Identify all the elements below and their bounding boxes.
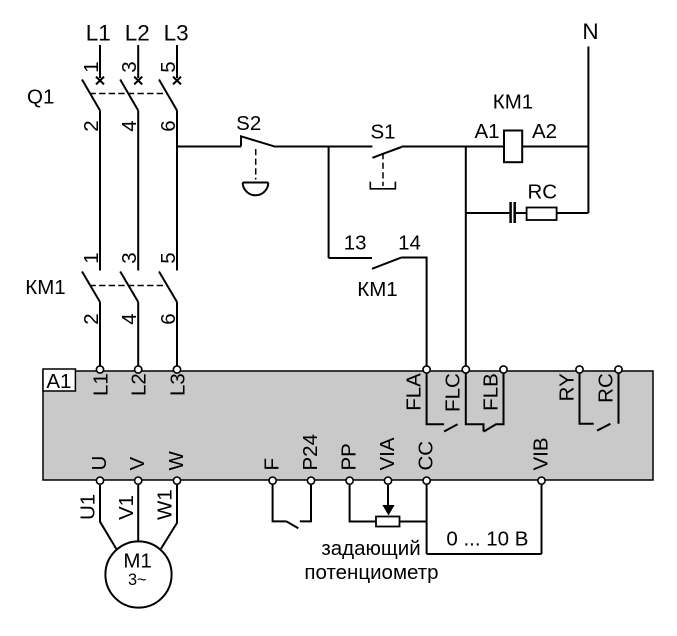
S2 actuator dashed link xyxy=(255,149,257,180)
svg-text:1: 1 xyxy=(80,61,103,72)
wire coil junction to coil A1 xyxy=(466,146,504,148)
terminal V xyxy=(126,457,149,485)
svg-text:RY: RY xyxy=(555,373,578,401)
wire KM1 pole3 to drive L3 xyxy=(176,302,178,370)
link P24 side xyxy=(300,485,311,521)
terminal VIB xyxy=(529,437,552,484)
svg-text:M1: M1 xyxy=(123,550,151,573)
wire Q1 to KM1 phase 3 xyxy=(176,111,178,271)
terminal FLB xyxy=(479,366,507,411)
wire L1 drop xyxy=(99,45,101,78)
wire CC down xyxy=(426,485,428,554)
wire capacitor to resistor xyxy=(516,212,527,214)
svg-text:W1: W1 xyxy=(154,489,177,520)
wire L2 drop xyxy=(137,45,139,78)
relay contact FLC common xyxy=(466,373,484,432)
S2 mushroom head xyxy=(243,183,269,196)
svg-text:3~: 3~ xyxy=(128,571,147,589)
svg-text:V1: V1 xyxy=(115,495,138,520)
svg-text:RC: RC xyxy=(527,181,557,204)
wire V to motor xyxy=(137,485,139,542)
Q1 pole 1 contact xyxy=(82,77,104,111)
svg-text:FLA: FLA xyxy=(403,373,426,411)
svg-text:3: 3 xyxy=(118,252,141,263)
svg-text:1: 1 xyxy=(80,252,103,263)
svg-text:14: 14 xyxy=(398,232,421,255)
wire U to motor xyxy=(100,485,117,550)
terminal RY xyxy=(555,366,583,401)
terminal F xyxy=(260,458,283,484)
svg-text:RC: RC xyxy=(594,373,617,403)
svg-text:потенциометр: потенциометр xyxy=(304,561,438,584)
svg-text:PP: PP xyxy=(337,443,360,470)
link F side xyxy=(273,485,287,521)
S1 actuator bracket xyxy=(370,182,395,189)
wire KM1 pole2 to drive L2 xyxy=(137,302,139,370)
svg-text:3: 3 xyxy=(118,61,141,72)
terminal VIA xyxy=(376,437,399,484)
capacitor of RC snubber xyxy=(511,202,515,223)
wiper arrow xyxy=(382,505,394,516)
KM1 pole 1 contact xyxy=(82,272,100,303)
svg-text:S1: S1 xyxy=(370,121,395,144)
potentiometer body xyxy=(376,517,400,527)
svg-text:L3: L3 xyxy=(167,373,190,396)
pushbutton S1 NO contact xyxy=(372,147,401,158)
relay contact FLA-FLC xyxy=(427,373,458,432)
wire W to motor xyxy=(161,485,177,549)
wire KM1 pole1 to drive L1 xyxy=(99,302,101,370)
svg-text:U1: U1 xyxy=(77,494,100,520)
terminal FLA xyxy=(403,366,431,411)
wire resistor to N xyxy=(557,212,589,214)
Q1 linkage dashed xyxy=(90,93,168,95)
terminal L1 xyxy=(90,366,113,396)
svg-text:VIB: VIB xyxy=(529,437,552,470)
terminal W xyxy=(165,451,188,485)
svg-text:V: V xyxy=(126,457,149,471)
terminal L3 xyxy=(167,366,190,396)
terminal U xyxy=(88,456,111,485)
svg-text:КМ1: КМ1 xyxy=(493,90,533,113)
terminal FLC xyxy=(441,366,469,412)
wire junction down to RC branch and FLC xyxy=(465,147,467,370)
svg-text:U: U xyxy=(88,456,111,471)
link F-P24 blade xyxy=(286,521,298,528)
wire L3 drop xyxy=(176,45,178,78)
terminal CC xyxy=(414,441,437,485)
resistor of RC snubber xyxy=(527,208,557,221)
wire S2 to junction xyxy=(276,146,329,148)
S1 actuator dashed link xyxy=(382,153,384,186)
motor M1 xyxy=(105,541,171,607)
svg-text:КМ1: КМ1 xyxy=(357,278,397,301)
wire control tap L3 to S2 xyxy=(177,146,241,148)
svg-text:L2: L2 xyxy=(125,20,150,45)
KM1 pole 2 contact xyxy=(120,272,138,303)
svg-text:задающий: задающий xyxy=(321,537,420,560)
svg-text:S2: S2 xyxy=(236,112,261,135)
KM1 pole 3 contact xyxy=(159,272,177,303)
wire junction to S1 xyxy=(329,146,373,148)
wire S1 to coil junction xyxy=(402,146,466,148)
svg-text:5: 5 xyxy=(157,61,180,72)
wire coil A2 to N xyxy=(522,146,588,148)
svg-text:Q1: Q1 xyxy=(27,86,54,109)
svg-text:0 ... 10 В: 0 ... 10 В xyxy=(446,528,528,551)
source 0-10V bottom xyxy=(427,553,542,555)
svg-text:5: 5 xyxy=(157,252,180,263)
svg-text:A1: A1 xyxy=(46,370,71,393)
wire junction down to aux contact xyxy=(328,147,330,259)
auxiliary contact KM1 13-14 xyxy=(372,258,401,269)
svg-text:CC: CC xyxy=(414,441,437,471)
wire to aux contact 13 xyxy=(329,257,372,259)
wire VIA wiper xyxy=(387,485,389,506)
svg-text:W: W xyxy=(165,451,188,471)
relay contact RC line xyxy=(618,373,620,424)
svg-text:L1: L1 xyxy=(90,373,113,396)
svg-text:L3: L3 xyxy=(164,20,189,45)
soft starter A1 body xyxy=(43,371,653,480)
wire PP to potentiometer xyxy=(350,485,376,522)
wire N vertical xyxy=(587,47,589,214)
relay contact FLC-FLB xyxy=(484,373,504,432)
svg-text:VIA: VIA xyxy=(376,437,399,470)
svg-text:F: F xyxy=(260,458,283,471)
wire aux 14 to FLA xyxy=(401,258,426,370)
svg-text:13: 13 xyxy=(344,232,367,255)
svg-text:FLC: FLC xyxy=(441,373,464,412)
wire potentiometer to CC xyxy=(400,521,427,523)
Q1 pole 2 contact xyxy=(120,77,142,111)
contactor coil KM1 xyxy=(504,131,522,163)
svg-text:FLB: FLB xyxy=(479,373,502,411)
svg-text:L1: L1 xyxy=(86,20,111,45)
svg-text:N: N xyxy=(582,19,598,44)
relay contact RY xyxy=(580,373,611,431)
svg-text:КМ1: КМ1 xyxy=(25,276,65,299)
svg-text:A1: A1 xyxy=(474,120,499,143)
svg-text:A2: A2 xyxy=(532,120,557,143)
wire RC branch left xyxy=(466,212,510,214)
KM1 linkage dashed xyxy=(90,285,168,287)
terminal L2 xyxy=(128,366,151,396)
pushbutton S2 NC contact xyxy=(241,136,276,147)
terminal PP xyxy=(337,443,360,484)
wire Q1 to KM1 phase 2 xyxy=(137,111,139,271)
device label A1 xyxy=(43,369,75,393)
wire Q1 to KM1 phase 1 xyxy=(99,111,101,271)
terminal RC xyxy=(594,366,622,403)
terminal P24 xyxy=(299,434,322,484)
Q1 pole 3 contact xyxy=(159,77,181,111)
svg-text:P24: P24 xyxy=(299,434,322,470)
wire VIB down xyxy=(541,485,543,554)
svg-text:L2: L2 xyxy=(128,373,151,396)
